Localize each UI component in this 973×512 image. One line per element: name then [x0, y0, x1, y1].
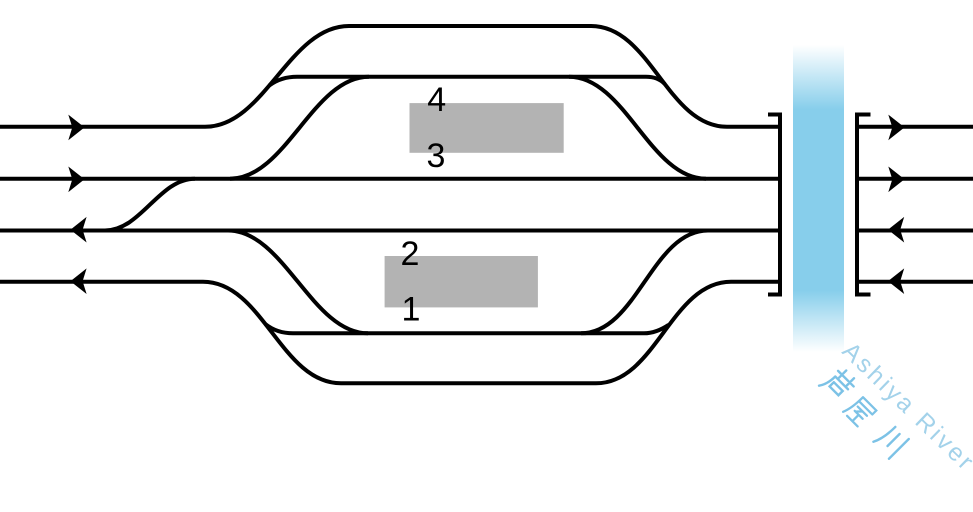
- wire track4 platform line: [269, 77, 664, 86]
- wire line3 full width: [0, 229, 973, 233]
- bridge bracket left: [768, 115, 780, 295]
- svg-text:2: 2: [401, 235, 420, 273]
- wire line1 with top bypass loop: [0, 26, 973, 127]
- arrow right line1 left: [68, 115, 84, 141]
- wire ladder track4 to line2: [569, 77, 706, 179]
- arrow left line3 right: [888, 217, 904, 243]
- wire line4 with bottom bypass loop: [0, 282, 973, 384]
- wire ladder line3 to track1: [228, 231, 368, 334]
- label kanji kawa 川: [873, 423, 909, 459]
- arrow left line3 left: [70, 217, 86, 243]
- wire line2 full width: [0, 177, 973, 181]
- wire ladder track1 to line3: [581, 231, 708, 334]
- svg-text:1: 1: [402, 291, 421, 329]
- svg-text:3: 3: [427, 137, 446, 175]
- arrow right line1 right: [888, 115, 904, 141]
- wire crossover line3 to line2: [105, 179, 195, 231]
- label kanji ashi 芦: [819, 364, 858, 403]
- arrow left line4 right: [888, 268, 904, 294]
- wire ladder line2 to track4: [230, 77, 369, 179]
- platform 3/4: [410, 103, 564, 153]
- svg-text:4: 4: [427, 81, 446, 119]
- wire track1 platform line: [266, 324, 669, 333]
- platform 1/2: [385, 256, 538, 307]
- arrow right line2 right: [888, 167, 904, 193]
- river Ashiya band: [793, 45, 844, 352]
- arrow left line4 left: [70, 268, 86, 294]
- bridge bracket right: [857, 115, 871, 295]
- label kanji ya 屋: [843, 395, 876, 428]
- arrow right line2 left: [68, 167, 84, 193]
